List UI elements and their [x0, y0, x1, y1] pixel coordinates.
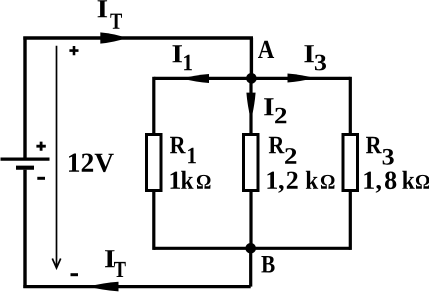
label I1: [173, 45, 192, 70]
wire left upper (top wire down to battery plus plate): [23, 37, 26, 158]
wire bottom bus through node B: [154, 247, 350, 250]
wire right drop (top wire to node A): [250, 38, 253, 78]
label I2: [264, 98, 286, 123]
wire left lower (battery minus plate down to bottom wire): [23, 170, 26, 288]
battery V1 long positive plate: [1, 157, 50, 160]
resistor R3 box: [343, 135, 358, 191]
label node B: [261, 256, 274, 273]
label node A: [258, 41, 274, 58]
wire R2 bottom to node B: [249, 191, 252, 248]
wire left branch down to R1: [152, 77, 155, 134]
wire R1 bottom to bus: [152, 191, 155, 250]
current arrow IT bottom (left-pointing): [89, 282, 119, 292]
label R1 value 1kOhm: [171, 171, 211, 189]
current arrow I3 (right-pointing): [288, 74, 315, 83]
battery plus sign: [36, 142, 45, 151]
wire right branch down to R3: [349, 77, 352, 134]
voltage arrow line: [56, 46, 58, 267]
label R2: [269, 137, 297, 164]
battery minus sign: [37, 177, 45, 180]
wire node A to right branch corner: [251, 77, 350, 80]
voltage arrow open head: [52, 259, 60, 269]
current arrow IT top (right-pointing): [100, 32, 127, 43]
voltage arrow plus sign: [69, 46, 78, 55]
label I3: [304, 45, 326, 70]
wire node A to left branch corner: [154, 77, 252, 80]
node A dot: [246, 73, 257, 84]
node B dot: [245, 243, 256, 254]
voltage arrow minus sign: [71, 273, 79, 276]
battery V1 short negative plate: [16, 166, 34, 170]
label R2 value 1,2kOhm: [267, 171, 334, 193]
label R3 value 1,8kOhm: [364, 171, 429, 193]
wire node A down to R2: [249, 78, 252, 134]
current arrow I2 (down-pointing): [246, 93, 255, 121]
wire top (battery to top-right corner): [23, 36, 253, 39]
label IT top: [98, 0, 122, 28]
current arrow I1 (left-pointing): [182, 74, 209, 83]
wire node B down to bottom wire: [249, 248, 252, 286]
label R1: [170, 137, 196, 164]
resistor R2 box: [244, 135, 259, 191]
label R3: [366, 137, 394, 165]
label IT bottom: [105, 250, 126, 277]
label 12V: [69, 154, 114, 173]
wire R3 bottom to bus: [349, 191, 352, 250]
wire bottom (bottom-left corner to below node B): [23, 285, 250, 288]
resistor R1 box: [147, 135, 162, 191]
